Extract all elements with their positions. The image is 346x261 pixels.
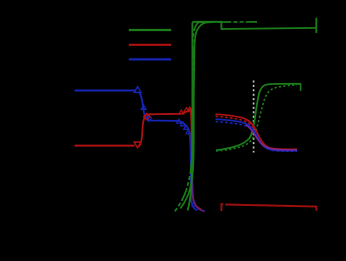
inset blue dashed xyxy=(216,122,298,152)
inset dashed white vline xyxy=(253,81,255,153)
inset green dashed xyxy=(216,85,297,151)
inset red solid xyxy=(216,114,298,149)
red small markers before drop xyxy=(179,110,184,114)
red marker big triangle xyxy=(134,142,141,148)
inset green end tick xyxy=(300,84,302,91)
red bottom box xyxy=(221,204,316,211)
main blue sigmoid + plateau + drop xyxy=(140,93,198,211)
legend line red xyxy=(129,44,171,46)
blue diamond marker xyxy=(146,115,152,121)
blue small markers on descent xyxy=(141,105,146,109)
blue marker big triangle xyxy=(134,87,141,93)
green spike solid c xyxy=(180,22,213,208)
inset red dashed xyxy=(216,116,298,149)
inset purple xyxy=(246,125,297,150)
main purple curve xyxy=(192,168,205,211)
inset blue solid xyxy=(216,119,298,151)
blue small markers before drop xyxy=(177,119,182,123)
green spike solid a xyxy=(188,18,317,211)
main red flat left xyxy=(75,145,135,147)
legend line green xyxy=(129,29,171,31)
green spike dashed b xyxy=(175,22,257,211)
legend line blue xyxy=(129,58,171,60)
red diamond marker xyxy=(144,113,150,119)
inset green solid xyxy=(216,84,301,151)
main red sigmoid + plateau + bump + drop xyxy=(139,108,201,209)
main blue flat left xyxy=(75,90,137,92)
